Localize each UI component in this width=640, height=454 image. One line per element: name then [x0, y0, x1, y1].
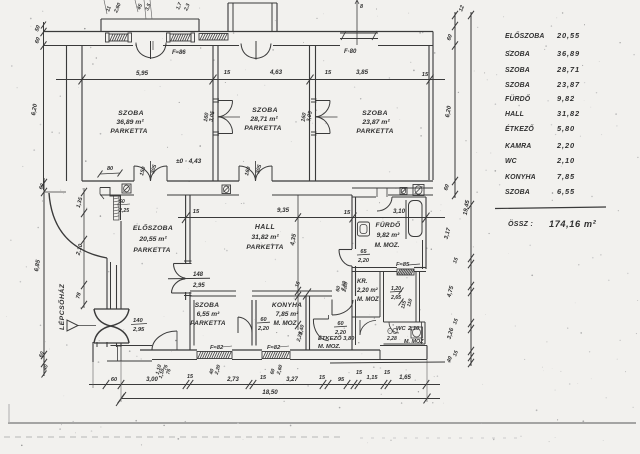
svg-text:15: 15 — [356, 370, 363, 376]
svg-text:4,63: 4,63 — [269, 69, 283, 76]
svg-text:15: 15 — [422, 72, 429, 78]
svg-text:5,95: 5,95 — [136, 70, 149, 77]
svg-text:31,82: 31,82 — [557, 109, 580, 118]
svg-text:WC: WC — [505, 158, 518, 165]
svg-text:7,85 m²: 7,85 m² — [276, 311, 300, 318]
svg-text:M. MOZ: M. MOZ — [357, 297, 379, 303]
svg-text:ELŐSZOBA: ELŐSZOBA — [133, 223, 173, 232]
svg-text:PARKETTA: PARKETTA — [244, 125, 281, 132]
svg-text:M. MOZ: M. MOZ — [273, 320, 297, 327]
svg-text:KAMRA: KAMRA — [505, 143, 531, 150]
svg-text:5,80: 5,80 — [557, 124, 575, 133]
svg-text:28,71: 28,71 — [556, 65, 580, 74]
svg-text:15: 15 — [319, 375, 326, 381]
svg-text:3,00: 3,00 — [146, 377, 158, 383]
svg-text:15: 15 — [187, 374, 194, 380]
svg-text:FÜRDŐ: FÜRDŐ — [376, 220, 402, 229]
svg-text:140: 140 — [133, 318, 143, 324]
svg-text:SZOBA: SZOBA — [505, 51, 530, 58]
svg-text:80: 80 — [107, 166, 113, 172]
svg-text:PARKETTA: PARKETTA — [190, 320, 226, 327]
svg-text:2,20 m²: 2,20 m² — [356, 287, 379, 294]
svg-text:SZOBA: SZOBA — [505, 189, 530, 196]
svg-text:20,55: 20,55 — [556, 31, 580, 40]
svg-text:2,20: 2,20 — [357, 258, 370, 264]
svg-text:9,35: 9,35 — [277, 207, 290, 214]
svg-text:15: 15 — [193, 209, 200, 215]
svg-text:SZOBA: SZOBA — [252, 107, 278, 114]
svg-text:F·80: F·80 — [344, 49, 357, 55]
svg-text:18,50: 18,50 — [262, 389, 278, 396]
svg-text:PARKETTA: PARKETTA — [246, 244, 283, 251]
svg-text:50: 50 — [119, 199, 125, 205]
svg-text:174,16 m²: 174,16 m² — [549, 219, 597, 229]
svg-text:31,82 m²: 31,82 m² — [251, 234, 279, 241]
svg-text:23,87: 23,87 — [556, 80, 580, 89]
svg-text:KONYHA: KONYHA — [272, 302, 302, 309]
svg-text:SZOBA: SZOBA — [362, 110, 388, 117]
svg-text:PARKETTA: PARKETTA — [110, 128, 147, 135]
svg-text:8: 8 — [360, 4, 363, 10]
svg-text:36,89: 36,89 — [557, 49, 580, 58]
svg-text:2,95: 2,95 — [192, 283, 205, 289]
svg-text:9,82 m²: 9,82 m² — [377, 232, 401, 239]
svg-text:60: 60 — [111, 377, 118, 383]
svg-text:SZOBA: SZOBA — [505, 82, 530, 89]
svg-text:3,27: 3,27 — [286, 377, 298, 383]
svg-text:PARKETTA: PARKETTA — [133, 247, 170, 254]
svg-text:M. MOZ: M. MOZ — [404, 339, 424, 345]
svg-text:KR.: KR. — [357, 279, 368, 285]
svg-text:148: 148 — [193, 272, 204, 278]
svg-text:15: 15 — [384, 370, 391, 376]
svg-text:7,85: 7,85 — [557, 172, 575, 181]
svg-text:LÉPCSŐHÁZ: LÉPCSŐHÁZ — [57, 283, 66, 330]
svg-text:F≈85: F≈85 — [396, 262, 410, 268]
svg-text:6,55 m²: 6,55 m² — [197, 311, 221, 318]
svg-text:2,73: 2,73 — [226, 377, 239, 383]
svg-text:HALL: HALL — [255, 224, 275, 231]
svg-text:95: 95 — [338, 377, 345, 383]
svg-text:M. MOZ.: M. MOZ. — [318, 344, 341, 350]
svg-text:PARKETTA: PARKETTA — [356, 128, 393, 135]
svg-text:SZOBA: SZOBA — [505, 67, 530, 74]
svg-text:15: 15 — [224, 70, 231, 76]
svg-text:15: 15 — [260, 375, 267, 381]
svg-text:36,89 m²: 36,89 m² — [116, 119, 144, 126]
svg-text:2,20: 2,20 — [257, 326, 270, 332]
svg-text:15: 15 — [344, 210, 351, 216]
svg-text:ÉTKEZŐ 3,80: ÉTKEZŐ 3,80 — [318, 334, 355, 342]
svg-text:ÖSSZ :: ÖSSZ : — [508, 219, 533, 228]
svg-text:6,55: 6,55 — [557, 187, 575, 196]
svg-text:9,82: 9,82 — [557, 94, 575, 103]
svg-text:1,15: 1,15 — [367, 375, 379, 381]
svg-text:2,10: 2,10 — [556, 156, 575, 165]
svg-text:KONYHA: KONYHA — [505, 174, 536, 181]
svg-text:2,65: 2,65 — [390, 295, 401, 301]
svg-text:WC: WC — [396, 326, 406, 332]
svg-text:2,95: 2,95 — [132, 327, 145, 333]
svg-text:3,10: 3,10 — [393, 208, 406, 215]
svg-text:F≈82: F≈82 — [267, 345, 281, 351]
svg-text:ELŐSZOBA: ELŐSZOBA — [505, 31, 544, 40]
svg-text:F≈86: F≈86 — [172, 50, 186, 56]
svg-text:SZOBA: SZOBA — [195, 302, 220, 309]
svg-text:ÉTKEZŐ: ÉTKEZŐ — [505, 124, 534, 133]
svg-text:±0 · 4,43: ±0 · 4,43 — [176, 158, 202, 165]
svg-text:SZOBA: SZOBA — [118, 110, 144, 117]
svg-text:F≈82: F≈82 — [210, 345, 224, 351]
svg-text:28,71 m²: 28,71 m² — [249, 116, 278, 123]
svg-text:20,55 m²: 20,55 m² — [138, 236, 167, 243]
svg-text:15: 15 — [325, 70, 332, 76]
svg-text:HALL: HALL — [505, 111, 524, 118]
svg-text:23,87 m²: 23,87 m² — [361, 119, 390, 126]
svg-text:3,85: 3,85 — [356, 69, 369, 76]
svg-text:M. MOZ.: M. MOZ. — [375, 242, 400, 249]
svg-text:1,65: 1,65 — [399, 375, 411, 381]
svg-text:FÜRDŐ: FÜRDŐ — [505, 94, 531, 103]
svg-text:2,25: 2,25 — [118, 208, 129, 214]
svg-text:2,20: 2,20 — [556, 141, 575, 150]
svg-text:2,28: 2,28 — [386, 336, 397, 342]
